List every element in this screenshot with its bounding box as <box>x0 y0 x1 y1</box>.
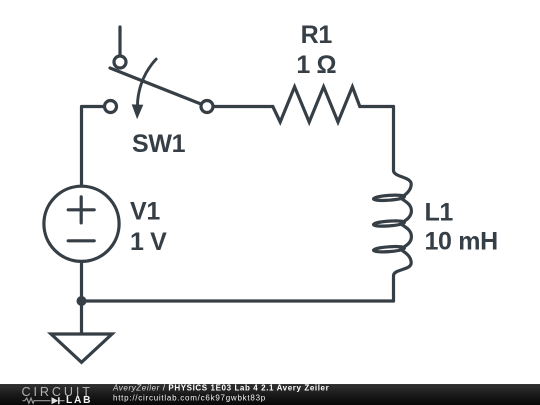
V1 minus sign <box>68 239 94 242</box>
svg-text:LAB: LAB <box>66 395 92 405</box>
wire: V1 bottom to junction to ground <box>80 263 83 334</box>
switch SW1 common terminal <box>201 101 213 113</box>
ground <box>51 334 112 362</box>
svg-text:AveryZeiler / PHYSICS 1E03 Lab: AveryZeiler / PHYSICS 1E03 Lab 4 2.1 Ave… <box>112 383 329 392</box>
inductor L1 (coil and right rail) <box>394 107 412 302</box>
switch SW1 arrow head <box>132 104 144 119</box>
switch SW1 top throw terminal <box>114 56 126 68</box>
wire: left throw to left rail <box>82 107 104 186</box>
logo resistor zigzag <box>23 398 51 403</box>
svg-text:10 mH: 10 mH <box>425 228 498 256</box>
svg-text:SW1: SW1 <box>132 130 186 158</box>
voltage source V1 <box>44 186 119 261</box>
wire: bottom rail <box>82 299 394 302</box>
wire: switch top stub <box>118 27 121 54</box>
svg-text:L1: L1 <box>425 199 454 227</box>
switch SW1 action arrow arc <box>138 59 157 105</box>
wire: right throw to resistor <box>215 105 273 108</box>
svg-text:R1: R1 <box>301 21 333 49</box>
junction node <box>77 296 87 306</box>
svg-text:V1: V1 <box>130 198 160 226</box>
switch SW1 left throw terminal <box>105 101 117 113</box>
V1 plus sign <box>68 197 94 223</box>
svg-text:http://circuitlab.com/c6k97gwb: http://circuitlab.com/c6k97gwbkt83p <box>113 394 266 403</box>
logo diode <box>52 397 59 404</box>
switch SW1 arm <box>110 68 201 104</box>
resistor R1 <box>273 87 394 122</box>
svg-text:1 Ω: 1 Ω <box>296 51 336 79</box>
svg-text:1 V: 1 V <box>130 228 167 256</box>
